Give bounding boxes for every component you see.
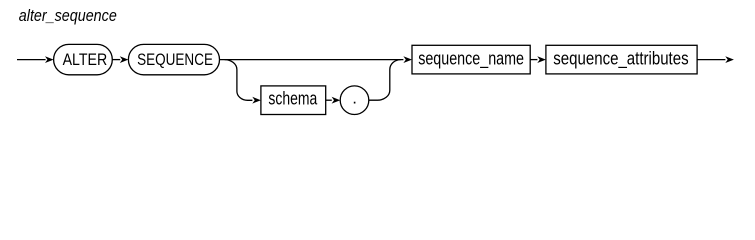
terminal dot circle	[340, 86, 369, 115]
nonterminal sequence_attributes	[546, 45, 697, 74]
terminal SEQUENCE	[128, 44, 219, 74]
terminal ALTER	[54, 44, 113, 74]
wire sequence_name to sequence_attributes	[530, 59, 537, 61]
wire branch down to schema	[225, 60, 253, 101]
wire return from dot up to main line	[369, 60, 401, 101]
arrowhead into SEQUENCE	[120, 56, 129, 63]
svg-text:sequence_attributes: sequence_attributes	[553, 48, 688, 69]
nonterminal sequence_name	[412, 45, 530, 74]
wire end	[697, 59, 725, 61]
arrowhead end	[725, 56, 734, 63]
svg-text:schema: schema	[268, 88, 318, 108]
wire start	[17, 59, 46, 61]
svg-text:.: .	[352, 89, 357, 108]
arrowhead into sequence_name	[403, 56, 412, 63]
svg-text:sequence_name: sequence_name	[418, 48, 524, 69]
svg-text:alter_sequence: alter_sequence	[19, 6, 117, 25]
svg-text:ALTER: ALTER	[63, 50, 108, 69]
arrowhead into dot	[332, 97, 341, 104]
nonterminal schema	[261, 86, 326, 115]
arrowhead start	[45, 56, 54, 63]
wire main line SEQUENCE to sequence_name	[220, 59, 404, 61]
svg-text:SEQUENCE: SEQUENCE	[137, 50, 213, 69]
wire schema to dot	[326, 99, 332, 101]
arrowhead into schema	[252, 97, 261, 104]
arrowhead into sequence_attributes	[537, 56, 546, 63]
wire ALTER to SEQUENCE	[112, 59, 120, 61]
